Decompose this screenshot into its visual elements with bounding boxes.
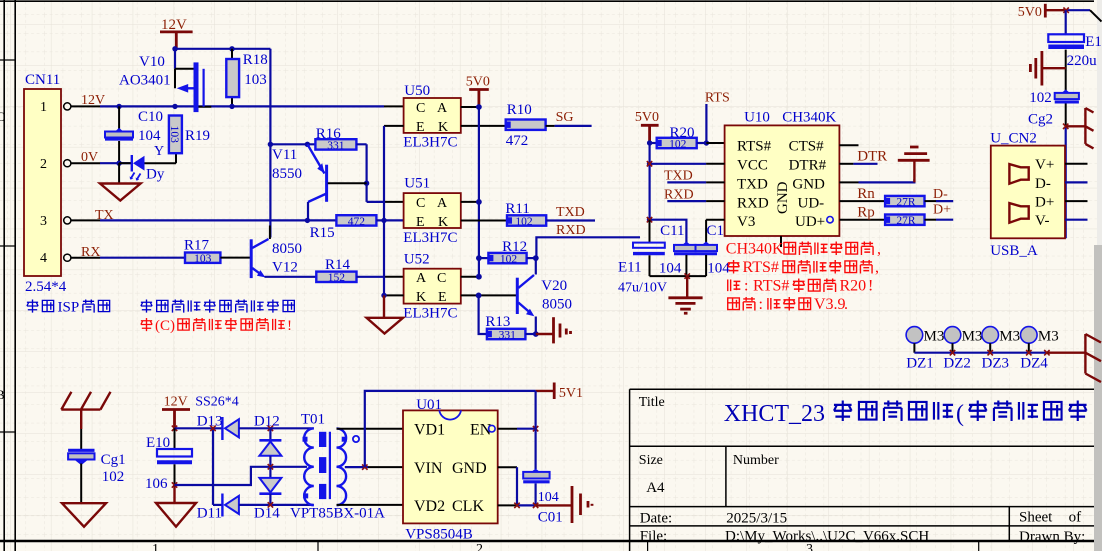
svg-text:.: . [844,296,848,313]
svg-text:D-: D- [933,187,948,202]
svg-text::: : [744,278,748,295]
svg-text:R16: R16 [316,126,342,142]
pin U50 K [461,125,507,127]
svg-text:331: 331 [499,329,517,341]
wire SG [546,125,555,127]
resistor R17 [185,253,220,263]
svg-text:472: 472 [348,216,366,228]
wire V3 [706,220,725,243]
svg-text:5V1: 5V1 [559,386,583,401]
pin U51 K [461,220,507,222]
svg-text:472: 472 [506,133,529,149]
sheet border top [0,0,1094,2]
resistor R14 [316,272,356,282]
svg-text:152: 152 [328,272,346,284]
svg-text:102: 102 [515,216,533,228]
svg-text:E: E [438,290,447,305]
wire caps gnd [650,275,707,277]
speaker icon 1 [1009,164,1028,184]
svg-text:CH340K: CH340K [726,241,784,258]
svg-text:C: C [0,109,5,124]
note CH340K red line3 [728,278,874,295]
pin UD- resistor Rn [839,200,885,202]
svg-text:M3: M3 [1038,328,1059,344]
svg-text:220u: 220u [1067,53,1098,69]
svg-text:TXD: TXD [737,176,768,192]
svg-text:U01: U01 [416,397,442,413]
node D11-D14 [268,502,273,507]
svg-text:C01: C01 [538,509,563,525]
diode D11 [213,504,222,506]
port symbol DZ [1047,352,1086,354]
svg-text:U51: U51 [404,176,430,192]
wire TXD [546,219,595,221]
svg-text:4: 4 [40,251,47,266]
note my ISP port [27,299,110,315]
note CH340K red line4 [728,296,848,313]
optocoupler U52 [404,269,461,304]
pin GND right [498,466,517,468]
svg-text::: : [759,296,763,313]
svg-text:5V0: 5V0 [1018,5,1042,20]
wire R13 vert [479,295,487,334]
node TX-vert [381,218,386,223]
svg-text:M3: M3 [999,328,1020,344]
svg-text:(: ( [956,401,964,427]
node VCC [647,161,652,166]
svg-text:C11: C11 [660,223,684,239]
wire 0V to Dy [119,162,131,164]
svg-text:E: E [416,120,425,135]
ground U52 K [383,295,385,317]
resistor R10 [506,120,546,130]
ground E10 [172,482,177,487]
svg-text:V3: V3 [737,214,755,230]
svg-text:8050: 8050 [272,241,302,257]
transistor V10 AO3401 [174,49,176,69]
svg-text:DZ2: DZ2 [943,356,971,372]
note bus drive blue [141,299,294,312]
svg-text:Dy: Dy [146,167,165,183]
wire RTS [705,104,707,143]
svg-text:AO3401: AO3401 [119,73,171,89]
svg-text:R20: R20 [840,278,867,295]
pin UD+ resistor Rp [839,219,885,221]
ground sideways [1042,67,1066,69]
svg-text:(C): (C) [155,318,175,334]
svg-text:RTS#: RTS# [743,259,779,276]
svg-text:RX: RX [81,245,100,260]
mounting hole DZ2 [944,327,961,344]
svg-text:V10: V10 [139,54,165,70]
capacitor E10 [174,428,176,449]
pin 2 [71,162,100,164]
svg-text:EL3H7C: EL3H7C [403,306,457,322]
wire T01 sec bottom to VD2 [337,504,404,506]
wire D- [936,200,953,202]
resistor R18 [231,49,233,107]
svg-text:CN11: CN11 [25,72,60,88]
resistor R15 [307,219,336,221]
wire 5V0 corner to C11 [650,220,687,243]
svg-text:Sheet: Sheet [1019,510,1053,526]
pin U50 A [461,106,479,108]
wire R17 to V12 base [220,257,250,259]
svg-text:VD2: VD2 [414,498,445,515]
svg-text:EL3H7C: EL3H7C [403,230,457,246]
svg-text:12V: 12V [161,17,187,33]
svg-text:R14: R14 [325,257,351,273]
svg-text:GND: GND [792,176,825,192]
svg-text:Number: Number [733,453,779,468]
ground C01 [536,504,572,506]
capacitor C11 [682,242,690,245]
svg-text:5V0: 5V0 [466,75,490,90]
svg-text:DZ1: DZ1 [906,356,934,372]
wire VCC [650,163,707,165]
node TX-R15-V11 [305,218,310,223]
resistor R12 [479,257,489,259]
svg-text:R11: R11 [505,201,529,217]
node V3 corner [647,217,652,222]
svg-text:Y: Y [154,144,164,159]
pin 3 [71,219,100,221]
svg-text:Cg2: Cg2 [1028,111,1053,127]
resistor R11 [507,215,546,225]
svg-text:EL3H7C: EL3H7C [403,135,457,151]
wire TX pin3 [100,219,308,221]
svg-text:E: E [416,215,425,230]
svg-text:102: 102 [1029,90,1052,106]
zone tick left [0,60,15,432]
node 12Vin-C10 [116,104,121,109]
pin U51 A [461,201,479,203]
transistor V20 8050 [516,278,519,314]
diode D13 [221,417,223,440]
transistor V11 8550 [325,165,328,202]
svg-text:DTR: DTR [857,149,887,165]
svg-text:102: 102 [102,469,125,485]
svg-text:XHCT_23: XHCT_23 [724,401,825,427]
LED Dy [131,155,133,172]
svg-text:UD-: UD- [798,195,825,211]
node U52E-R13 [476,293,482,299]
svg-text:D14: D14 [254,506,280,522]
svg-text:R20: R20 [670,125,695,141]
diode D14 [269,467,271,478]
diode D12 [269,428,271,440]
svg-text:TXD: TXD [556,205,585,220]
pin DTR# wire DTR [839,163,853,165]
svg-text:A: A [416,271,427,286]
wire 5V1 rail [365,391,536,467]
wire down to E cap [1065,10,1067,34]
wire row A to T01 [270,427,313,429]
wire 5V0 vert [648,143,650,220]
wire R15 to U51 E [376,219,403,221]
svg-text:103: 103 [194,253,212,265]
svg-text:R18: R18 [243,52,268,68]
wire RXD [536,237,640,258]
capacitor C10 [118,106,120,163]
svg-text:47u/10V: 47u/10V [618,280,667,295]
svg-text:GND: GND [775,181,791,214]
svg-text:D-: D- [1035,176,1051,192]
connector CN11 [24,89,61,276]
node 5V0-U50A [476,104,482,110]
node 5V0-U52C [476,274,482,280]
sheet border left inner [14,0,16,551]
svg-text:VIN: VIN [414,460,443,477]
node 12Vin-V10 [172,104,177,109]
svg-text:8550: 8550 [272,166,302,182]
svg-text:T01: T01 [301,412,325,428]
svg-text:A4: A4 [646,480,665,496]
svg-text:2.54*4: 2.54*4 [25,279,67,295]
svg-text:RTS: RTS [705,91,730,106]
capacitor Cg2 102 [1062,90,1070,93]
node U52K-gnd [381,293,386,298]
node V11 emitter [305,142,310,147]
capacitor C12 [702,242,710,245]
wire DZ bus [914,352,1047,354]
svg-text:Cg1: Cg1 [101,452,126,468]
svg-text:104: 104 [538,490,559,505]
node V11 base [364,181,369,186]
wire 12V rail [175,48,270,50]
svg-text:A: A [437,196,448,211]
svg-text:of: of [1069,510,1082,526]
svg-text:K: K [438,120,448,135]
wire top right [1066,9,1090,11]
speaker icon 2 [1009,203,1028,223]
node R20-RTS [704,140,709,145]
pin V- [1065,219,1088,221]
wire 12V pin1 [100,105,384,107]
svg-text:D12: D12 [254,414,280,430]
svg-text:V11: V11 [272,147,297,163]
pin GND bottom [780,236,782,247]
svg-text:Rn: Rn [857,186,875,202]
svg-text:V3.9: V3.9 [814,296,846,313]
svg-text:D13: D13 [197,414,223,430]
wire R14 to U52 A [357,276,385,278]
wire vert D13-D11 [212,428,214,505]
pin CTS# [839,144,858,146]
pin U52 E [461,294,516,296]
svg-text:SS26*4: SS26*4 [195,395,239,410]
title block lines [630,389,1094,551]
svg-text:E10: E10 [146,435,170,451]
capacitor E11 [649,220,651,243]
wire R16 right to base [356,144,366,202]
svg-text:CLK: CLK [452,498,484,515]
svg-text:D:\My_Works\..\U2C_V66x.SCH: D:\My_Works\..\U2C_V66x.SCH [725,529,929,545]
wire base to U51 C [367,201,384,203]
svg-text:Size: Size [639,453,663,468]
node 5V0-U51A [476,199,482,205]
wire T01 sec tap to VIN [345,466,368,468]
node 12V-E10 [172,426,177,431]
svg-text:Rp: Rp [857,204,875,220]
pin RTS# [706,142,724,144]
svg-text:R17: R17 [184,238,210,254]
svg-text:104: 104 [659,261,682,277]
svg-text:102: 102 [500,254,518,266]
svg-text:DTR#: DTR# [789,158,827,174]
wire Cg2 down [1065,104,1067,127]
svg-text:104: 104 [138,128,161,144]
svg-text:U50: U50 [404,83,430,99]
node R13 right [533,331,539,337]
node R16 left rail [268,142,273,147]
svg-text:V+: V+ [1035,157,1054,173]
svg-text:D+: D+ [933,203,951,218]
pin U52 C [461,276,479,278]
svg-text:A: A [437,101,448,116]
chassis ground top [61,392,110,410]
pin V+ [1065,163,1088,165]
svg-text:GND: GND [452,460,487,477]
power port 12V top [160,32,193,49]
optocoupler U51 [404,193,461,228]
pin GND wire [839,181,858,183]
svg-text:Title: Title [639,395,665,410]
svg-text:,: , [877,241,881,258]
svg-text:RTS#: RTS# [737,139,772,155]
pin EN [489,425,496,432]
transistor V12 8050 [250,239,253,278]
ic U10 CH340K [725,125,840,236]
ground Cg1 [80,464,82,503]
connector U_CN2 [991,146,1065,239]
node rail-R18 [229,46,234,51]
wire RX pin4 [100,257,186,259]
node center tap [268,464,273,469]
svg-text:RXD: RXD [737,195,769,211]
svg-text:VD1: VD1 [414,422,445,439]
resistor R16 [315,139,356,149]
svg-text:U10: U10 [744,109,770,125]
svg-text:5V0: 5V0 [635,110,659,125]
pin 1 [71,105,100,107]
wire vert U50E-U52K [383,126,385,296]
svg-text:!: ! [868,278,873,295]
wire D+ [936,219,953,221]
svg-text:R13: R13 [485,314,510,330]
pin 4 [71,257,100,259]
note version red [141,318,292,334]
svg-text:1: 1 [152,542,159,551]
svg-text:R19: R19 [185,128,210,144]
svg-text:2: 2 [476,542,483,551]
capacitor Cg1 [80,429,82,450]
svg-text:USB_A: USB_A [990,243,1038,259]
svg-text:103: 103 [168,126,180,144]
svg-text:103: 103 [244,72,267,88]
node R12 right [533,255,539,261]
wire 0V pin2 [100,162,131,164]
svg-text:E11: E11 [618,259,642,275]
svg-text:K: K [438,215,448,230]
svg-text:1: 1 [40,100,47,115]
svg-text:Drawn By:: Drawn By: [1019,529,1085,545]
svg-text:104: 104 [707,261,730,277]
pin D+ [1065,200,1088,202]
svg-text:File:: File: [640,529,668,545]
svg-text:D+: D+ [1035,194,1054,210]
svg-text:Date:: Date: [640,510,672,526]
wire rail to R16 [270,143,315,145]
svg-text:3: 3 [40,214,47,229]
svg-text:R12: R12 [502,239,527,255]
svg-text:D11: D11 [197,506,222,522]
svg-text:2: 2 [40,157,47,172]
svg-text:M3: M3 [962,328,983,344]
wire row A [175,427,223,429]
sheet border left outer [3,0,5,551]
mounting hole DZ1 [906,327,923,344]
svg-text:E1: E1 [1085,34,1102,50]
title text [724,400,1087,426]
pin U52 K [384,294,404,296]
zone dividers bottom [318,541,979,551]
svg-text:RTS#: RTS# [753,278,789,295]
svg-text:8050: 8050 [542,297,572,313]
svg-text:C10: C10 [138,109,163,125]
svg-text:VPS8504B: VPS8504B [405,526,473,542]
svg-text:C: C [416,101,425,116]
pin CLK [498,504,517,506]
svg-text:UD+: UD+ [795,214,825,230]
ground R13 [536,333,553,335]
wire gnd jog to center tap [175,467,308,485]
svg-text:SG: SG [556,110,574,125]
node D13-D12 [268,426,273,431]
svg-text:R15: R15 [310,225,335,241]
svg-text:C: C [437,271,446,286]
power port 5V1 [536,390,554,392]
svg-text:CTS#: CTS# [789,139,825,155]
node R12 left [476,255,482,261]
ground 0V [118,163,120,183]
svg-text:VCC: VCC [737,158,768,174]
svg-text:!: ! [287,318,292,334]
svg-text:27R: 27R [896,215,916,227]
svg-text:C: C [416,196,425,211]
svg-text:DZ4: DZ4 [1020,356,1048,372]
svg-text:K: K [416,290,426,305]
node 5V0-R20 [647,140,652,145]
svg-text:U52: U52 [404,252,430,268]
svg-text:C1: C1 [707,223,725,239]
node 12Vin-R18 [229,104,234,109]
svg-text:12V: 12V [164,395,188,410]
svg-text:106: 106 [145,476,168,492]
ic U01 VPS8504B [403,410,498,523]
svg-text:B: B [0,387,5,402]
mounting hole DZ4 [1021,327,1038,344]
resistor R13 [487,329,526,339]
mounting hole DZ3 [982,327,999,344]
svg-text:VPT85BX-01A: VPT85BX-01A [290,506,385,522]
capacitor C01 [534,391,536,469]
resistor R19 [169,116,182,154]
ground DTR inverted [913,161,915,183]
svg-text:0V: 0V [81,150,98,165]
svg-text:CH340K: CH340K [782,109,836,125]
svg-text:27R: 27R [896,197,916,209]
